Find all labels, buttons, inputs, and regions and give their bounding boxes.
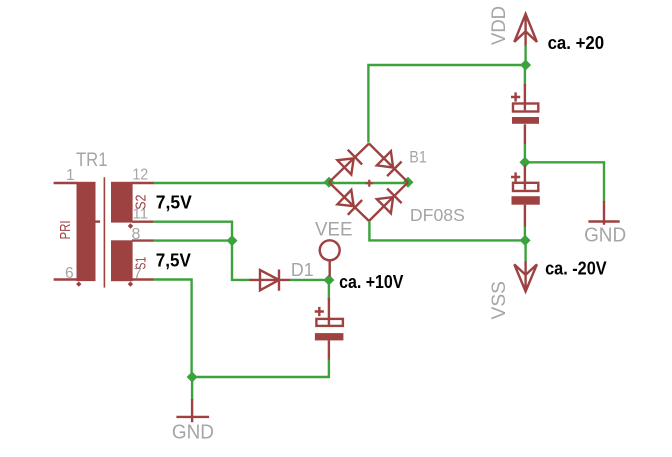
svg-text:S2: S2: [133, 195, 150, 210]
polarity dot S2: [128, 223, 133, 228]
svg-text:GND: GND: [172, 422, 214, 444]
C2 top lead: [524, 165, 526, 190]
C3 plus sign: [315, 307, 324, 316]
C1 top plate: [513, 104, 538, 112]
pin 6 stub: [54, 278, 77, 280]
capacitor C1: [511, 84, 539, 144]
secondary S2 winding rect: [111, 182, 133, 223]
svg-text:1: 1: [66, 167, 75, 184]
core tick: [96, 220, 101, 222]
svg-text:7,5V: 7,5V: [156, 192, 193, 213]
C2 top plate: [513, 183, 538, 191]
svg-text:GND: GND: [584, 225, 626, 247]
C1 bottom plate: [512, 117, 539, 124]
diode D1: [249, 270, 290, 291]
capacitor C3: [315, 298, 344, 360]
C2 bottom lead: [524, 205, 526, 227]
pin 11 stub: [132, 220, 153, 222]
wire mid junction to right GND: [525, 162, 604, 202]
capacitor C2: [511, 165, 540, 227]
wire pin11 net: [153, 222, 232, 241]
wire VDD arrow stub: [524, 46, 526, 66]
bridge edge BR: [369, 182, 408, 221]
wire bottom junction to left GND: [191, 377, 193, 400]
svg-text:D1: D1: [291, 259, 314, 280]
node bridge AC right: [403, 177, 414, 188]
svg-text:6: 6: [65, 265, 74, 282]
C1 top lead: [524, 84, 526, 110]
wire bridge bottom to VSS junction: [369, 222, 525, 241]
node VDD junction: [520, 60, 531, 71]
svg-text:8: 8: [132, 226, 141, 243]
C1 bottom lead: [524, 124, 526, 144]
wire junction down to D1: [232, 241, 250, 280]
C2 plus sign: [511, 172, 520, 181]
polarity dot S1: [128, 281, 133, 286]
ground GND left: [172, 399, 214, 444]
C1 plus sign: [511, 92, 520, 101]
supply VSS arrow: [514, 261, 537, 291]
wire pin8 net: [153, 239, 232, 241]
wire C1 to mid junction: [524, 143, 526, 167]
svg-text:ca. +20: ca. +20: [548, 33, 605, 53]
node VSS junction: [520, 235, 531, 246]
svg-text:VDD: VDD: [489, 6, 510, 45]
ground GND right: [584, 201, 626, 247]
node VEE junction: [323, 275, 334, 286]
wire bridge top to VDD junction: [368, 65, 525, 143]
wire D1 cathode to VEE junction: [290, 279, 329, 281]
diode TR: [377, 151, 402, 176]
polarity dot primary: [76, 281, 81, 286]
svg-text:DF08S: DF08S: [410, 205, 465, 225]
pin 12 stub: [132, 182, 154, 184]
wire pin7 net: [153, 280, 192, 378]
wire C3 bottom to bottom rail: [192, 359, 329, 377]
svg-text:B1: B1: [409, 148, 427, 167]
node bottom rail junction: [187, 372, 198, 383]
bridge edge TR: [369, 144, 408, 183]
svg-text:S1: S1: [133, 257, 150, 270]
bridge center cross: [366, 180, 373, 187]
C3 top plate: [316, 319, 343, 326]
wire junction to C1: [524, 65, 526, 86]
node secondary junction: [227, 235, 238, 246]
C2 bottom plate: [512, 196, 540, 205]
diode TL: [337, 150, 362, 175]
wire VEE junction down to C3: [328, 280, 330, 300]
bridge edge BL: [329, 182, 369, 221]
C3 bottom lead: [328, 340, 330, 359]
C3 bottom plate: [315, 333, 344, 340]
bridge rectifier B1: [329, 144, 408, 222]
supply VEE circle: [320, 240, 340, 276]
diode BR: [377, 189, 402, 214]
bridge edge TL: [329, 144, 369, 183]
node C1-C2 midpoint junction: [519, 157, 530, 168]
diode BL: [337, 190, 362, 215]
core line: [104, 177, 106, 287]
pin 1 stub: [54, 182, 77, 184]
supply VDD arrow: [514, 14, 537, 46]
svg-text:7,5V: 7,5V: [156, 249, 192, 270]
wire C2 to VSS junction: [524, 226, 526, 240]
svg-text:TR1: TR1: [76, 150, 108, 171]
svg-text:VSS: VSS: [489, 281, 510, 320]
pin 7 stub: [132, 278, 153, 280]
C3 top lead: [328, 298, 330, 326]
transformer TR1: [54, 150, 154, 287]
svg-text:PRI: PRI: [57, 221, 74, 240]
secondary S1 winding rect: [111, 240, 133, 281]
node bridge AC left: [324, 177, 335, 188]
wire net pin12 to bridge: [153, 182, 406, 184]
pin 8 stub: [132, 239, 153, 241]
primary winding rect: [77, 182, 96, 281]
svg-text:ca. +10V: ca. +10V: [339, 272, 403, 292]
wire VSS junction down: [524, 240, 526, 262]
svg-text:12: 12: [132, 167, 148, 184]
svg-text:VEE: VEE: [315, 220, 353, 241]
svg-text:ca. -20V: ca. -20V: [545, 258, 607, 278]
